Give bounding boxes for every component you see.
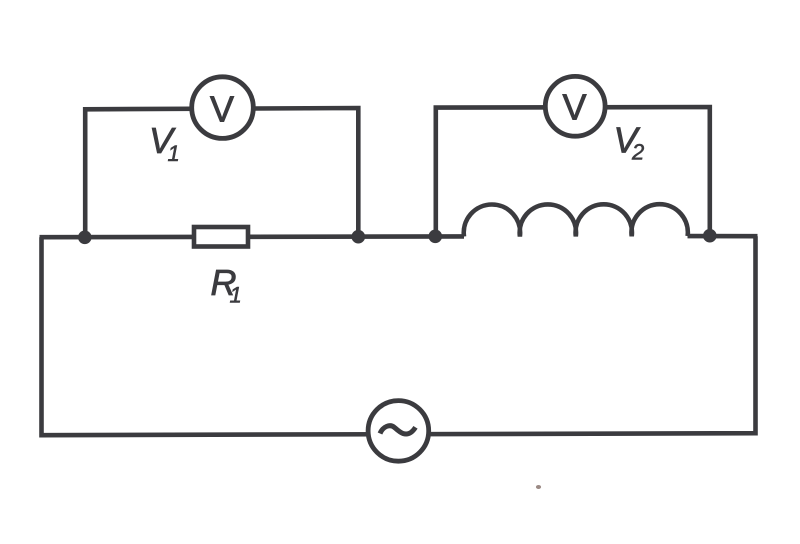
svg-text:V: V (210, 88, 234, 129)
svg-text:2: 2 (631, 140, 644, 165)
svg-text:1: 1 (168, 141, 180, 166)
svg-text:V: V (562, 87, 586, 128)
svg-text:1: 1 (230, 283, 242, 308)
